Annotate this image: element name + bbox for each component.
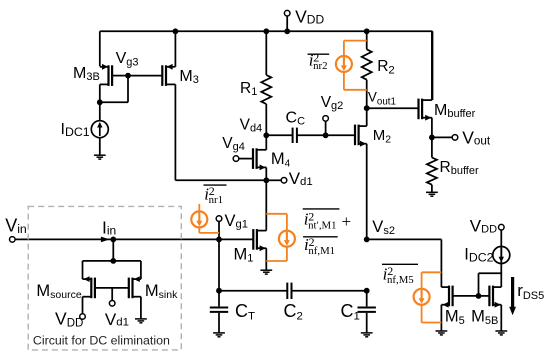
svg-text:M5: M5 (445, 308, 465, 327)
svg-text:nr2: nr2 (313, 60, 327, 72)
svg-text:M5B: M5B (471, 308, 498, 327)
svg-text:Vin: Vin (5, 216, 27, 236)
svg-text:IDC1: IDC1 (61, 121, 90, 139)
svg-text:R2: R2 (377, 58, 395, 76)
svg-text:nf,M1: nf,M1 (308, 245, 335, 257)
svg-text:Vs2: Vs2 (372, 218, 395, 237)
svg-text:VDD: VDD (55, 308, 83, 329)
svg-text:VDD: VDD (295, 6, 324, 26)
svg-text:Vout: Vout (462, 128, 491, 148)
svg-text:Vd1: Vd1 (105, 310, 129, 329)
svg-text:Vg3: Vg3 (116, 50, 139, 68)
svg-text:C2: C2 (284, 301, 303, 322)
svg-text:nr1: nr1 (209, 194, 223, 206)
svg-text:Circuit for DC elimination: Circuit for DC elimination (33, 334, 170, 348)
svg-text:Mbuffer: Mbuffer (434, 102, 476, 120)
svg-text:Iin: Iin (102, 218, 116, 238)
svg-text:Vg1: Vg1 (225, 212, 248, 231)
svg-text:Vd1: Vd1 (289, 169, 313, 188)
svg-text:Vout1: Vout1 (368, 90, 396, 108)
svg-text:rDS5: rDS5 (517, 281, 544, 302)
svg-text:CC: CC (286, 109, 306, 127)
svg-text:R1: R1 (240, 80, 257, 98)
svg-text:nt′,M1: nt′,M1 (308, 219, 336, 231)
svg-text:M3B: M3B (73, 65, 100, 83)
svg-text:C1: C1 (341, 301, 360, 322)
svg-text:Vg2: Vg2 (321, 94, 344, 112)
svg-text:M2: M2 (373, 127, 392, 145)
svg-text:M4: M4 (271, 150, 291, 169)
svg-text:Vd4: Vd4 (240, 116, 263, 134)
svg-text:CT: CT (235, 301, 255, 322)
svg-text:Msink: Msink (145, 282, 178, 301)
svg-text:Rbuffer: Rbuffer (440, 159, 479, 177)
svg-text:M1: M1 (234, 246, 254, 265)
svg-text:nf,M5: nf,M5 (387, 274, 414, 286)
svg-text:VDD: VDD (470, 216, 497, 235)
svg-text:Msource: Msource (36, 282, 81, 301)
svg-text:Vg4: Vg4 (222, 135, 245, 153)
svg-text:+: + (342, 212, 352, 231)
svg-text:M3: M3 (179, 68, 198, 86)
svg-text:IDC2: IDC2 (464, 246, 493, 265)
